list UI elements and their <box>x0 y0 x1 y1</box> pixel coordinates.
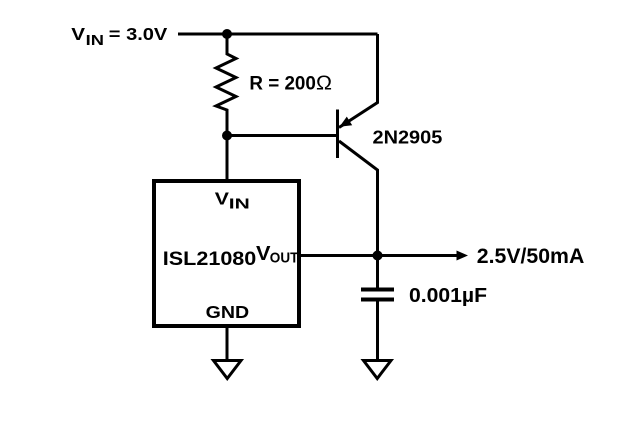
svg-text:Ω: Ω <box>316 72 332 95</box>
node junction VIN rail / resistor top <box>222 29 232 39</box>
op-amp/IC U1 ISL21080 package box <box>154 181 299 326</box>
transistor Q1 collector (with wire down to output node) <box>339 141 378 256</box>
wire output node down to capacitor <box>376 256 379 288</box>
wire capacitor to ground <box>376 302 379 360</box>
wire junction down to IC VIN pin <box>226 136 229 182</box>
wire IC GND pin to ground <box>226 328 229 359</box>
ground symbol (IC GND) <box>214 361 242 379</box>
svg-text:GND: GND <box>206 302 250 322</box>
svg-text:OUT: OUT <box>270 249 299 266</box>
svg-text:2.5V/50mA: 2.5V/50mA <box>477 245 585 268</box>
wire top rail from VIN label to transistor emitter branch <box>178 33 378 36</box>
svg-text:V: V <box>71 24 85 44</box>
node junction resistor bottom / base wire / VIN pin <box>222 131 232 141</box>
transistor Q1 2N2905 base bar <box>336 110 339 159</box>
output arrowhead <box>457 251 469 261</box>
capacitor C1 plates <box>361 290 394 300</box>
resistor R (body zigzag) <box>216 34 236 136</box>
ground symbol (capacitor) <box>364 361 392 379</box>
transistor Q1 emitter arrowhead (PNP, pointing at base) <box>340 117 353 127</box>
node junction output / capacitor <box>373 251 383 261</box>
wire transistor base to junction <box>227 134 336 137</box>
svg-text:0.001µF: 0.001µF <box>409 285 487 307</box>
svg-text:R = 200: R = 200 <box>249 74 316 95</box>
wire output: VOUT pin to output arrow <box>301 254 457 257</box>
svg-text:= 3.0V: = 3.0V <box>109 24 168 44</box>
svg-text:2N2905: 2N2905 <box>373 127 443 147</box>
svg-text:IN: IN <box>86 33 104 49</box>
svg-text:ISL21080: ISL21080 <box>163 248 257 270</box>
transistor Q1 emitter (with wire up to rail) <box>339 34 378 128</box>
svg-text:IN: IN <box>229 196 250 213</box>
svg-text:V: V <box>215 188 230 208</box>
